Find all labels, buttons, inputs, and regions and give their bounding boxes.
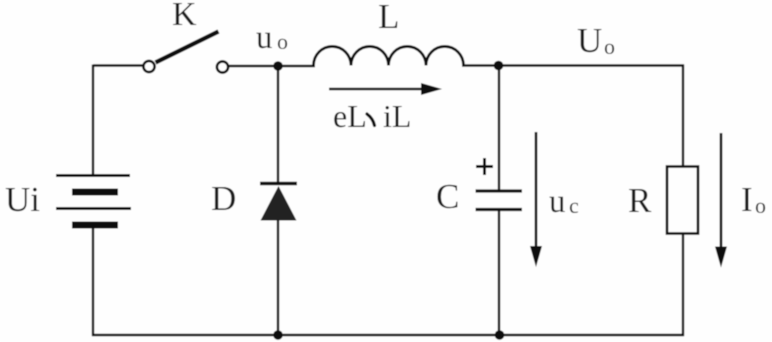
svg-text:iL: iL (383, 98, 411, 134)
svg-text:U: U (577, 21, 602, 60)
diode D (260, 184, 297, 221)
inductor L (314, 46, 464, 65)
wire bottom rail (92, 334, 684, 337)
svg-text:o: o (277, 29, 288, 54)
svg-text:R: R (628, 181, 652, 220)
arrow u_c (530, 132, 542, 267)
svg-text:Ui: Ui (5, 180, 40, 219)
svg-text:K: K (172, 0, 197, 33)
switch contact circle right (217, 61, 228, 72)
resistor R (667, 167, 698, 234)
node junction dot bottom-mid (495, 330, 505, 340)
switch K (143, 32, 228, 73)
wire from switch to inductor (229, 65, 315, 67)
switch lever (156, 32, 219, 63)
svg-text:eL: eL (333, 98, 367, 134)
wire left vertical rail (below battery) (92, 226, 94, 336)
svg-text:u: u (256, 20, 273, 56)
switch contact circle left (143, 61, 154, 72)
svg-text:o: o (755, 193, 766, 218)
arrow eL iL (329, 83, 442, 95)
battery Ui (56, 176, 131, 226)
svg-text:D: D (211, 179, 236, 218)
wire from inductor to top-right corner (462, 64, 684, 66)
wire left vertical rail (top of battery) (92, 65, 94, 175)
svg-text:c: c (569, 193, 579, 218)
svg-text:o: o (604, 34, 615, 59)
wire top-left horizontal from left rail to switch (93, 64, 143, 66)
ideographic comma mark (367, 114, 375, 126)
wire diode branch lower (277, 220, 279, 336)
svg-text:I: I (741, 180, 753, 219)
wire capacitor branch upper (498, 66, 500, 192)
node junction dot bottom-left (273, 330, 283, 340)
wire capacitor branch lower (498, 210, 500, 337)
wire right rail lower (682, 234, 684, 337)
capacitor C (476, 191, 523, 210)
wire right rail upper (682, 65, 684, 168)
svg-text:u: u (549, 184, 566, 220)
svg-text:C: C (436, 177, 459, 216)
plus sign (476, 158, 493, 175)
svg-text:L: L (378, 0, 399, 36)
node junction dot top (capacitor branch) (494, 61, 504, 71)
arrow I_o (715, 133, 727, 268)
wire diode branch upper (277, 66, 279, 183)
node u_o junction dot (273, 61, 283, 71)
